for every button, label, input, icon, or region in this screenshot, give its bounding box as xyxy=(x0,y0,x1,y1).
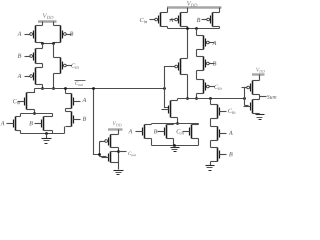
wire N13 to ground xyxy=(259,114,261,115)
wire pair bottom rail xyxy=(21,133,65,135)
junction output Cout xyxy=(117,150,120,153)
wire P3 to P4 xyxy=(42,64,44,68)
wire Cout-bar to N4 xyxy=(65,89,67,94)
label Cout-bar text xyxy=(75,82,83,86)
ground (Cout inverter) xyxy=(114,171,124,175)
label B (N11b gate) xyxy=(229,152,233,156)
nmos N10 (gate Cin) xyxy=(211,105,227,119)
pmos P10 (gate B) xyxy=(197,57,215,71)
wire output Cout xyxy=(119,151,127,153)
pmos P2 (gate B) xyxy=(54,26,72,43)
label Cout (output) xyxy=(128,152,136,156)
label B (N8 gate) xyxy=(154,129,158,133)
label A (N2 gate) xyxy=(0,121,4,125)
label Cin (N1 gate) xyxy=(13,99,20,104)
pmos P9 (gate A) xyxy=(197,36,215,50)
junction P11 on Sum-bar xyxy=(195,97,198,100)
node Sum-bar wire xyxy=(178,98,245,100)
label B (P2 gate) xyxy=(70,32,74,36)
wire N6 to trio rail xyxy=(177,118,179,124)
nmos N12 (Cout inverter pull-down) xyxy=(102,152,119,163)
label Cin (N9 gate) xyxy=(177,129,184,134)
junction ground tap xyxy=(45,132,48,135)
wire node X to P5 xyxy=(53,44,55,58)
wire N8 to bottom rail xyxy=(173,139,175,146)
wire node Y xyxy=(168,28,220,30)
wire inverter gate bus xyxy=(99,142,101,157)
label A (P1 gate) xyxy=(17,32,21,36)
power VDD rail (left Cout stage) xyxy=(38,20,57,22)
wire VDD to P2 drain xyxy=(53,22,55,26)
nmos N3 (gate B) xyxy=(35,117,53,131)
wire P11 to Sum-bar xyxy=(196,94,198,99)
wire VDD to P6 xyxy=(167,8,169,13)
nmos N4 (gate A) xyxy=(66,94,81,109)
nmos N11 (gate A) xyxy=(211,127,227,141)
nmos N5 (gate B) xyxy=(66,112,81,127)
wire N11 to N11b xyxy=(210,141,212,148)
junction N1 on pair rail xyxy=(33,112,36,115)
wire P8 to node Y xyxy=(219,27,221,29)
label Cout-bar overline xyxy=(75,80,86,82)
pmos P8 (gate B) xyxy=(202,13,220,27)
label B (P3 gate) xyxy=(18,54,22,58)
junction trio ground tap xyxy=(173,144,176,147)
wire P6 to node Y xyxy=(167,27,169,29)
wire N12 to ground xyxy=(118,163,120,170)
junction node X left xyxy=(41,42,44,45)
wire Cout-bar tap up to P13 gate xyxy=(165,67,172,89)
ground (Sum PDN trio) xyxy=(171,148,180,152)
junction P5 on Cout-bar xyxy=(52,87,55,90)
junction P7 on node Y xyxy=(186,27,189,30)
wire Sum-bar inverter gate bus xyxy=(244,88,246,106)
wire parallel pair top rail xyxy=(21,113,53,115)
wire N9 to bottom rail xyxy=(198,139,200,146)
junction chain on node Y xyxy=(195,27,198,30)
wire VDD to P14 xyxy=(259,75,261,81)
wire Sum-bar to N10 xyxy=(210,99,212,105)
pmos P7 (gate A) xyxy=(170,13,188,27)
wire P4 to Cout-bar node xyxy=(42,85,44,89)
junction Cout-bar to Sum stage xyxy=(163,87,166,90)
wire N7 to bottom rail xyxy=(151,139,153,146)
label A (N7 gate) xyxy=(128,129,132,133)
ground (Sum inverter) xyxy=(256,115,265,120)
label VDD (Sum inverter) xyxy=(256,68,265,73)
nmos N1 (gate Cin) xyxy=(18,93,35,110)
wire P7 through node Y to P13 xyxy=(187,27,189,59)
wire bus to N13 gate xyxy=(245,105,249,107)
wire trio bottom rail xyxy=(152,145,199,147)
junction P13 on Sum-bar xyxy=(186,97,189,100)
wire rail to N7 xyxy=(151,124,153,125)
nmos N13 (Sum inverter pull-down) xyxy=(244,100,260,114)
wire P13 to Sum-bar xyxy=(187,75,189,99)
pmos P14 (Sum inverter pull-up) xyxy=(242,81,260,95)
label A (P7 gate) xyxy=(169,18,173,22)
junction N6 on trio rail xyxy=(176,122,179,125)
wire rail to N3 xyxy=(52,114,54,117)
junction P4 on Cout-bar xyxy=(41,87,44,90)
wire N11b to ground xyxy=(210,162,212,166)
pmos P11 (gate Cin) xyxy=(197,80,215,94)
nmos N8 (gate B) xyxy=(158,125,174,139)
nmos N7 (gate A) xyxy=(136,125,152,139)
label Cin (P11 gate) xyxy=(214,85,221,90)
label VDD (Cout inverter) xyxy=(113,122,122,127)
wire rail to N8 xyxy=(173,124,175,125)
nmos N6 (gate Cout-bar) xyxy=(162,101,178,118)
wire node X xyxy=(43,43,54,45)
wire Cout-bar to inverter input xyxy=(94,89,100,155)
wire N10 to N11a xyxy=(210,119,212,127)
power VDD rail (Sum inverter) xyxy=(252,73,265,75)
ground (Sum PDN chain) xyxy=(206,166,215,171)
label A (N11 gate) xyxy=(229,131,233,135)
wire N1 to pair rail xyxy=(34,110,36,114)
pmos P6 (gate Cin) xyxy=(150,13,168,27)
label Cin (P6 gate) xyxy=(140,18,147,23)
pmos P12 (Cout inverter pull-up) xyxy=(100,135,119,148)
pmos P1 (gate A) xyxy=(25,26,43,43)
label B (N5 gate) xyxy=(83,117,87,121)
wire bus to N12 gate xyxy=(100,156,107,158)
pmos P5 (gate Cin) xyxy=(54,58,72,74)
label A (N4 gate) xyxy=(82,98,86,102)
wire P9 to P10 xyxy=(196,50,198,57)
power VDD rail (Cout inverter) xyxy=(108,128,123,130)
pmos P3 (gate B) xyxy=(25,49,43,64)
label A (P4 gate) xyxy=(17,74,21,78)
wire VDD to P8 xyxy=(219,8,221,13)
wire node Y to P9 xyxy=(196,29,198,36)
wire trio top rail xyxy=(152,123,199,125)
wire N5 to bottom rail xyxy=(64,127,66,134)
label A (P9 gate) xyxy=(212,41,216,45)
wire bus to P12 gate xyxy=(100,141,103,143)
junction N4 on Cout-bar xyxy=(64,87,67,90)
wire N4 to N5 xyxy=(65,109,67,112)
wire P12 to N12 output xyxy=(118,148,120,163)
label VDD (Sum stage) xyxy=(187,1,197,7)
junction chain on Sum-bar xyxy=(209,97,212,100)
nmos N9 (gate Cin) xyxy=(183,125,199,139)
wire rail to N2 xyxy=(20,114,22,117)
wire N6 to Sum-bar xyxy=(177,99,179,101)
wire bus to P14 gate xyxy=(245,87,247,89)
pmos P4 (gate A) xyxy=(25,68,43,85)
junction inverter input tap xyxy=(92,87,95,90)
nmos N11b (gate B) xyxy=(211,148,227,162)
wire Cout-bar step to N1 xyxy=(27,89,35,93)
label B (P8 gate) xyxy=(197,18,201,22)
label Sum (output) xyxy=(267,95,276,99)
label B (P10 gate) xyxy=(213,61,217,65)
wire P14 to N13 output xyxy=(259,95,261,100)
junction gate bus input xyxy=(98,153,101,156)
wire ground stem xyxy=(46,134,48,139)
wire P5 to Cout-bar node xyxy=(53,74,55,89)
wire N3 to bottom rail xyxy=(52,131,54,134)
wire Cout-bar tap down to N6 gate xyxy=(165,89,169,108)
wire VDD to P7 xyxy=(187,8,189,13)
label VDD (left Cout stage) xyxy=(43,13,54,19)
wire node X to P3 xyxy=(42,44,44,49)
power VDD rail (Sum stage) xyxy=(167,6,222,8)
wire VDD to P1 drain xyxy=(42,22,44,26)
ground (left PDN) xyxy=(42,139,52,144)
junction Sum inverter input xyxy=(243,97,246,100)
nmos N2 (gate A) xyxy=(7,117,21,131)
junction node X right xyxy=(52,42,55,45)
wire P1 source to node X xyxy=(42,43,44,44)
wire rail to N9 xyxy=(198,124,200,125)
wire P2 source to node X xyxy=(53,43,55,44)
wire VDD to P12 xyxy=(118,130,120,135)
wire P10 to P11 xyxy=(196,71,198,80)
label Cin (P5 gate) xyxy=(71,63,78,68)
wire output Sum xyxy=(260,96,267,98)
pmos P13 (gate Cout-bar) xyxy=(170,59,188,75)
label Cin (N10 gate) xyxy=(228,109,235,114)
label B (N3 gate) xyxy=(29,121,33,125)
node Cout-bar wire xyxy=(35,88,165,90)
wire N2 to bottom rail xyxy=(20,131,22,134)
